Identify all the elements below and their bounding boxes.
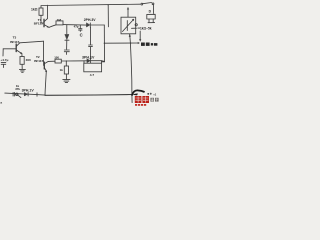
svg-text:3PH.1V: 3PH.1V xyxy=(22,88,35,92)
diode arrow xyxy=(15,93,18,96)
arrow below box xyxy=(129,34,132,43)
wire right vertical from diode xyxy=(103,25,105,43)
transformer box B1 (3PH.1V block) xyxy=(84,61,102,64)
wire T3->T2 base vertical xyxy=(43,41,46,65)
svg-text:BF115: BF115 xyxy=(34,22,43,26)
svg-text:BF115: BF115 xyxy=(34,59,43,63)
capacitor bar x=37 xyxy=(24,93,27,96)
node junction at x=130 xyxy=(130,42,131,43)
earphone D symbol xyxy=(147,14,155,22)
svg-text:1kΩ~5k: 1kΩ~5k xyxy=(140,26,152,30)
arrow above box xyxy=(127,8,129,16)
node junction xyxy=(104,43,105,44)
wire T2 emitter down xyxy=(45,71,46,95)
wire long right vertical x=131 xyxy=(130,43,132,103)
diode D1 (2PH.3V) xyxy=(86,23,90,27)
switch arm xyxy=(143,3,152,4)
svg-text:BF115: BF115 xyxy=(10,40,19,44)
svg-text:47p: 47p xyxy=(74,25,79,29)
resistor R2 1M (horizontal) xyxy=(56,21,63,25)
svg-text:3PH.1V: 3PH.1V xyxy=(82,55,95,59)
svg-text:+4.7μ: +4.7μ xyxy=(0,58,8,62)
svg-text:1k: 1k xyxy=(60,68,64,72)
wire top supply rail xyxy=(42,4,141,5)
dashes before right labels xyxy=(132,27,140,29)
capacitor C5 xyxy=(13,92,14,96)
variable capacitor CV box xyxy=(121,17,137,34)
wire horizontal y=43 with arrow xyxy=(104,42,138,44)
capacitor C2 4.7u (left edge) xyxy=(2,49,4,56)
watermark gray text 电子 xyxy=(150,98,158,102)
diode D2 (3PH.1V) xyxy=(87,59,91,63)
ground xyxy=(19,69,25,72)
svg-text:2PH.3V: 2PH.3V xyxy=(84,18,96,22)
capacitor C (hanging at x=80) xyxy=(79,25,82,31)
background xyxy=(0,0,160,110)
resistor R4 100 xyxy=(55,59,61,63)
wire T3 collector row xyxy=(20,41,44,43)
wire detector row y=61 xyxy=(48,60,55,62)
transistor T1 xyxy=(44,5,49,27)
wire bottom frame line xyxy=(45,94,132,97)
watermark swoosh xyxy=(132,90,145,95)
svg-text:37k: 37k xyxy=(15,87,20,91)
svg-text:100: 100 xyxy=(54,55,59,59)
svg-text:1M: 1M xyxy=(57,18,62,22)
wire right drop to earphone xyxy=(152,5,154,14)
switch S contact circles on rail xyxy=(141,3,143,5)
watermark group (bottom right) xyxy=(132,90,159,105)
resistor R1 1k (top left, vertical) xyxy=(40,6,42,9)
svg-text:1kΩ: 1kΩ xyxy=(31,8,38,12)
wire antenna stub x=108 xyxy=(107,5,109,27)
transistor T2 xyxy=(44,61,48,71)
watermark dot plus xyxy=(150,93,152,95)
wire T1 emitter row xyxy=(49,25,56,28)
resistor R5 1k below row + ground xyxy=(65,61,67,66)
svg-text:300: 300 xyxy=(26,58,31,62)
text labels (slightly blurred group) xyxy=(0,8,157,105)
transistor T3 xyxy=(3,43,22,54)
label row2 (tuning) xyxy=(141,43,157,46)
watermark red char 1 xyxy=(135,96,149,103)
watermark red small row xyxy=(135,104,146,106)
diode/cap chain x=67 above row xyxy=(66,25,68,34)
bottom-left wire row xyxy=(5,93,45,95)
wire coupling vertical x=90.5 xyxy=(89,27,93,59)
svg-text:C: C xyxy=(80,32,83,37)
annotation arrow down xyxy=(139,31,141,40)
svg-text:4.7: 4.7 xyxy=(90,73,95,77)
resistor R3 300 (T3 emitter) xyxy=(21,54,23,57)
